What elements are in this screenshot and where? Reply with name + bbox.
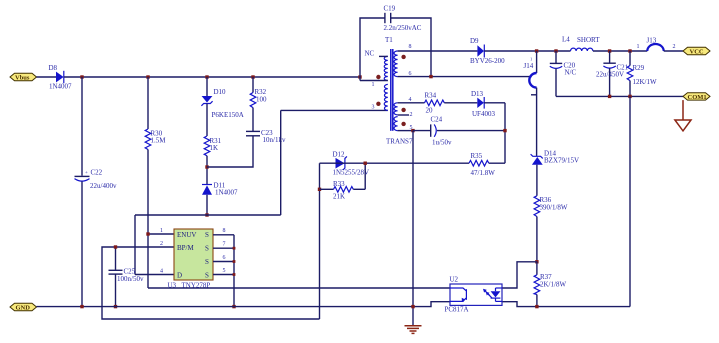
node R36-R37-bracket — [535, 260, 538, 263]
optocoupler U2 PC817A — [445, 276, 503, 314]
node rail-R32 — [251, 75, 254, 78]
wire opto emitter to bottom rail — [502, 302, 630, 307]
svg-text:1: 1 — [160, 228, 163, 234]
resistor R32 100 — [250, 88, 267, 108]
wire opto collector bracket — [502, 262, 537, 288]
node R33 left — [318, 188, 321, 191]
wire drain to D pin — [134, 215, 136, 275]
svg-text:D13: D13 — [471, 90, 484, 98]
wire C19 loop left — [360, 18, 385, 81]
capacitor C19 2.2n/250vAC — [384, 5, 422, 33]
wire R34/D13 row — [398, 102, 425, 104]
wire T1 pin6 row — [398, 76, 532, 78]
svg-text:1N5255/28V: 1N5255/28V — [333, 169, 370, 177]
svg-text:10n/1kv: 10n/1kv — [263, 136, 286, 144]
node C19-pin6 — [429, 75, 432, 78]
resistor R34 20 — [425, 92, 445, 115]
svg-text:C22: C22 — [91, 169, 103, 177]
capacitor C23 10n/1kv — [246, 129, 286, 144]
power ground COM1 — [675, 100, 691, 131]
zener D14 BZX79/15V — [531, 150, 579, 165]
port Vbus — [10, 73, 37, 81]
node R30-EN — [146, 232, 149, 235]
wire drain to pin3 riser — [280, 110, 282, 215]
svg-text:J14: J14 — [524, 62, 534, 70]
resistor R31 1K — [204, 136, 221, 156]
pin NC stub — [379, 55, 388, 57]
wire D11 to drain line — [206, 195, 208, 215]
wire S pin8 stub — [213, 234, 234, 236]
diode D8 1N4007 — [49, 64, 73, 91]
node BPM-C25 — [114, 245, 117, 248]
wire R31 to D11 — [206, 156, 208, 185]
diode D13 UF4003 — [471, 90, 495, 118]
svg-text:390/1/8W: 390/1/8W — [540, 204, 568, 212]
wire C23 to clamp return — [207, 136, 253, 167]
wire D12/R33 left bracket — [319, 163, 321, 319]
phase dot pin4 — [401, 108, 405, 112]
svg-text:S: S — [205, 258, 209, 266]
wire D13 to riser — [484, 102, 505, 104]
node R31-C23 return — [205, 165, 208, 168]
node R37-bottom rail — [535, 305, 538, 308]
svg-text:D12: D12 — [333, 151, 346, 159]
svg-text:2: 2 — [410, 112, 413, 118]
resistor R29 12K/1W — [627, 51, 657, 96]
wire COM1 rail — [556, 95, 683, 97]
connector J14 — [524, 51, 537, 156]
svg-text:BYV26-200: BYV26-200 — [470, 57, 505, 65]
wire S bus to gnd — [233, 235, 235, 307]
diode D10 P6KE150A — [201, 88, 243, 119]
node rail-R30 — [146, 75, 149, 78]
phase dot pin3 — [376, 102, 380, 106]
wire S pin7 stub — [213, 247, 234, 249]
primary winding lower — [384, 84, 388, 110]
svg-text:UF4003: UF4003 — [472, 110, 495, 118]
wire S pin5 stub — [213, 274, 234, 276]
node source-gnd rail — [411, 305, 414, 308]
wire D14 to R36 — [536, 165, 538, 196]
svg-text:D: D — [177, 272, 182, 280]
wire EN/opto line — [148, 287, 450, 289]
transformer T1 TRANS7 — [360, 36, 413, 146]
wire C24 to riser — [437, 130, 505, 132]
resistor R33 21K — [320, 180, 366, 201]
capacitor C25 100n/50v — [109, 268, 144, 284]
wire drain line — [135, 214, 281, 216]
node J14 top — [535, 49, 538, 52]
node pin5-C24 — [411, 129, 414, 132]
svg-text:1u/50v: 1u/50v — [432, 139, 452, 147]
svg-text:P6KE150A: P6KE150A — [212, 111, 244, 119]
node R29-COM1 — [628, 95, 631, 98]
svg-text:S: S — [205, 231, 209, 239]
wire C25 top — [115, 247, 117, 270]
node rail-T1 primary — [358, 75, 361, 78]
wire D pin4 — [135, 274, 174, 276]
node C21-COM1 — [608, 95, 611, 98]
wire source drop — [412, 131, 414, 326]
wire D12/R33 right bracket — [364, 163, 366, 189]
port VCC — [683, 47, 710, 55]
wire main rail — [64, 76, 360, 78]
svg-text:BP/M: BP/M — [177, 244, 195, 252]
wire R32 to C23 — [252, 108, 254, 131]
IC U3 TNY278P — [160, 228, 213, 290]
svg-text:R34: R34 — [425, 92, 437, 100]
wire rail to D10 — [206, 77, 208, 96]
phase dot pin1 — [376, 75, 380, 79]
svg-text:2: 2 — [673, 44, 676, 50]
svg-text:1: 1 — [372, 82, 375, 88]
wire output drop — [629, 96, 631, 306]
secondary bottom winding lower — [394, 117, 398, 131]
wire T1 pin3 — [281, 109, 388, 111]
svg-text:1N4007: 1N4007 — [49, 83, 72, 91]
secondary top winding — [394, 51, 398, 77]
wire gnd rail — [37, 302, 451, 307]
earth ground — [405, 326, 422, 334]
svg-text:1: 1 — [637, 44, 640, 50]
resistor R37 2K/1/8W — [534, 262, 566, 307]
svg-text:ENUV: ENUV — [177, 231, 196, 239]
svg-text:D8: D8 — [49, 64, 58, 72]
phase dot pin8 — [401, 55, 405, 59]
wire R34 to D13 — [444, 102, 477, 104]
svg-text:COM1: COM1 — [688, 94, 707, 101]
svg-text:4: 4 — [160, 269, 163, 275]
svg-text:7: 7 — [223, 242, 226, 248]
pin 2 stub — [398, 114, 409, 116]
svg-text:5: 5 — [223, 268, 226, 274]
zener D12 1N5255/28V — [333, 151, 370, 177]
svg-text:N/C: N/C — [565, 69, 577, 77]
node C24-riser — [503, 129, 506, 132]
svg-text:4: 4 — [409, 97, 412, 103]
node rail-D10 — [205, 75, 208, 78]
wire C25 bottom — [115, 274, 117, 307]
wire D9 to output rail — [484, 50, 570, 52]
svg-text:D9: D9 — [470, 37, 479, 45]
jumper J13 — [637, 37, 676, 52]
node D12 right — [364, 162, 367, 165]
wire S pin6 stub — [213, 261, 234, 263]
svg-text:R29: R29 — [633, 64, 645, 72]
svg-text:2.2n/250vAC: 2.2n/250vAC — [384, 24, 422, 32]
wire D13 output riser — [504, 103, 506, 163]
svg-text:C24: C24 — [431, 116, 443, 124]
svg-text:3: 3 — [372, 105, 375, 111]
node S bus joints — [233, 247, 236, 250]
svg-text:C19: C19 — [384, 5, 396, 13]
svg-text:J13: J13 — [647, 37, 657, 45]
diode D9 BYV26-200 — [470, 37, 505, 65]
svg-text:8: 8 — [223, 228, 226, 234]
svg-text:TRANS7: TRANS7 — [386, 138, 413, 146]
svg-text:12K/1W: 12K/1W — [633, 78, 658, 86]
node R29 top — [628, 49, 631, 52]
svg-text:S: S — [205, 245, 209, 253]
node C25-gnd rail — [114, 305, 117, 308]
svg-text:BZX79/15V: BZX79/15V — [544, 157, 579, 165]
svg-text:PC817A: PC817A — [445, 306, 469, 314]
wire R36 to R37 top — [536, 217, 538, 262]
wire pin5 to C24 — [413, 130, 430, 132]
svg-text:20: 20 — [426, 107, 434, 115]
wire BP/M pin2 — [102, 247, 320, 319]
port GND — [10, 303, 37, 311]
capacitor C21 22u/450V — [596, 51, 629, 96]
primary winding upper — [384, 56, 388, 80]
svg-text:VCC: VCC — [690, 49, 704, 56]
wire pin8 to D9 — [398, 50, 478, 52]
wire C22 to gnd rail — [81, 182, 83, 307]
svg-text:1N4007: 1N4007 — [215, 189, 238, 197]
svg-text:U2: U2 — [450, 276, 459, 284]
capacitor C22 22u/400v — [75, 169, 117, 191]
svg-text:T1: T1 — [385, 36, 393, 44]
phase dot pin5 — [401, 122, 405, 126]
svg-text:1: 1 — [530, 57, 532, 62]
capacitor C24 1u/50v — [431, 116, 452, 147]
svg-text:D10: D10 — [214, 88, 227, 96]
wire C22 column — [81, 77, 83, 176]
svg-text:22u/400v: 22u/400v — [90, 182, 117, 190]
port COM1 — [683, 93, 710, 101]
wire L4 to J13 — [593, 50, 647, 52]
svg-text:21K: 21K — [333, 193, 345, 201]
svg-text:GND: GND — [16, 305, 31, 312]
pin 1 stub — [360, 80, 388, 82]
capacitor C20 N/C — [550, 51, 577, 96]
svg-text:2K/1/8W: 2K/1/8W — [540, 281, 566, 289]
svg-text:8: 8 — [409, 44, 412, 50]
resistor R30 1.5M — [145, 77, 166, 150]
svg-text:L4: L4 — [562, 36, 570, 44]
svg-text:NC: NC — [365, 50, 375, 58]
svg-text:1K: 1K — [210, 144, 219, 152]
wire D12 row — [320, 162, 470, 164]
svg-text:2: 2 — [160, 241, 163, 247]
svg-text:R33: R33 — [333, 180, 345, 188]
core — [390, 49, 392, 131]
wire Vbus to D8 — [37, 76, 57, 78]
node C20 top — [554, 49, 557, 52]
inductor L4 SHORT — [562, 36, 600, 52]
node C22-gnd rail — [80, 305, 83, 308]
svg-text:1.5M: 1.5M — [151, 137, 167, 145]
svg-text:+: + — [85, 171, 88, 176]
svg-text:SHORT: SHORT — [577, 36, 600, 44]
svg-text:100n/50v: 100n/50v — [117, 275, 144, 283]
secondary bottom winding upper — [394, 103, 398, 115]
wire J13 to VCC — [664, 50, 683, 52]
svg-text:TNY278P: TNY278P — [182, 282, 211, 290]
pin numbers S bus — [223, 228, 226, 274]
wire D10 to R31 — [206, 104, 208, 137]
svg-text:U3: U3 — [168, 282, 177, 290]
wire R30 to EN line corner — [147, 150, 149, 289]
svg-text:6: 6 — [223, 255, 226, 261]
resistor R35 47/1.8W — [469, 152, 505, 177]
diode D11 1N4007 — [202, 182, 238, 197]
svg-text:Vbus: Vbus — [15, 75, 30, 82]
svg-text:22u/450V: 22u/450V — [596, 71, 624, 79]
wire C19 loop right — [391, 18, 431, 77]
node C21 top — [608, 49, 611, 52]
svg-text:S: S — [205, 272, 209, 280]
node rail-C22 — [80, 75, 83, 78]
svg-text:47/1.8W: 47/1.8W — [471, 169, 496, 177]
svg-text:R35: R35 — [471, 152, 483, 160]
svg-text:100: 100 — [256, 96, 267, 104]
node D11-drain line — [205, 213, 208, 216]
wire rail to R32 — [252, 77, 254, 93]
wire pin5 stub — [398, 130, 413, 132]
resistor R36 390/1/8W — [534, 196, 568, 217]
node Sbus-gnd rail — [232, 305, 235, 308]
wire EN pin1 — [148, 233, 174, 235]
